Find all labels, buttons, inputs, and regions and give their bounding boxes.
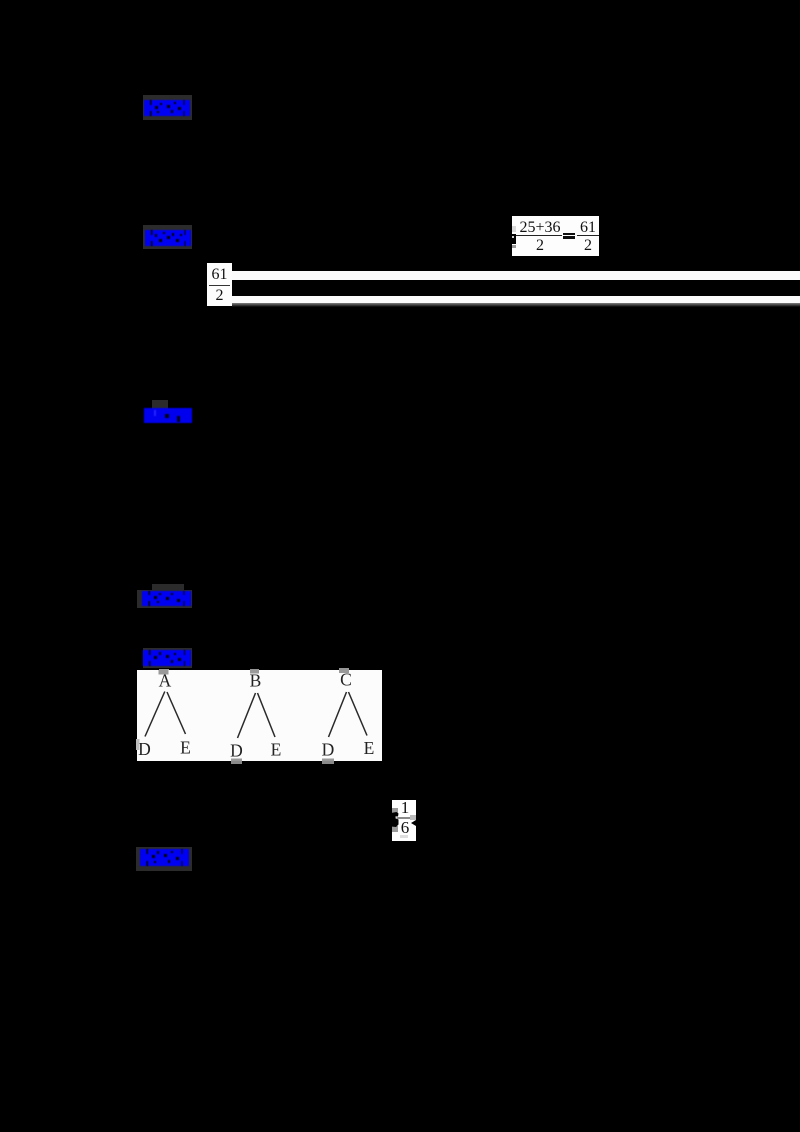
- label tag 2 gray highlight: [143, 225, 192, 249]
- gray smudges at tree image top edge: [159, 669, 169, 675]
- bold equals: [563, 233, 575, 236]
- gray tab at tree image left edge: [136, 739, 139, 750]
- tree 3 branches: [329, 692, 347, 737]
- label tag 5 blue text: [143, 650, 191, 671]
- svg-text:E: E: [271, 740, 282, 760]
- label tag 3 blue text (solid): [144, 408, 192, 428]
- label tag 3 gray highlight patch: [152, 400, 168, 409]
- black blob artifact at left edge: [391, 812, 400, 828]
- small black tab left of equation image 1: [509, 234, 516, 244]
- label tag 6 gray highlight: [136, 847, 192, 871]
- tree 1 branches: [145, 692, 165, 737]
- wide white strip with black bar (cut off at right edge): [232, 271, 800, 303]
- label tag 6 blue text: [140, 849, 189, 871]
- black bar: [232, 280, 800, 296]
- label tag 4 gray highlight: [137, 590, 192, 608]
- label tag 1 gray highlight: [143, 95, 192, 120]
- label tag 5 gray highlight: [143, 648, 192, 668]
- tree 2 branches: [238, 693, 256, 738]
- svg-text:D: D: [138, 739, 151, 759]
- label tag 4 upper gray patch: [152, 584, 184, 591]
- svg-text:E: E: [180, 738, 191, 758]
- black arrow artifact at right edge: [411, 820, 416, 826]
- svg-text:E: E: [364, 738, 375, 758]
- tree diagram image: [137, 670, 382, 761]
- equation image 1: (25+36)/2 = 61/2: [512, 216, 599, 256]
- gray artifact patches: [392, 808, 398, 815]
- label tag 2 blue text: [145, 230, 191, 251]
- label tag 4 blue text: [142, 591, 191, 611]
- svg-text:D: D: [230, 741, 243, 761]
- equation image 3: 1/6: [392, 800, 416, 841]
- gray smudges below tree image bottom edge: [231, 759, 242, 764]
- fraction (25+36)/2: [516, 220, 564, 235]
- fraction 61/2: [576, 220, 600, 235]
- label tag 1 blue text: [144, 100, 190, 121]
- svg-text:D: D: [322, 740, 335, 760]
- fade below strip: [232, 303, 800, 307]
- equation image 2: 61/2: [207, 263, 232, 306]
